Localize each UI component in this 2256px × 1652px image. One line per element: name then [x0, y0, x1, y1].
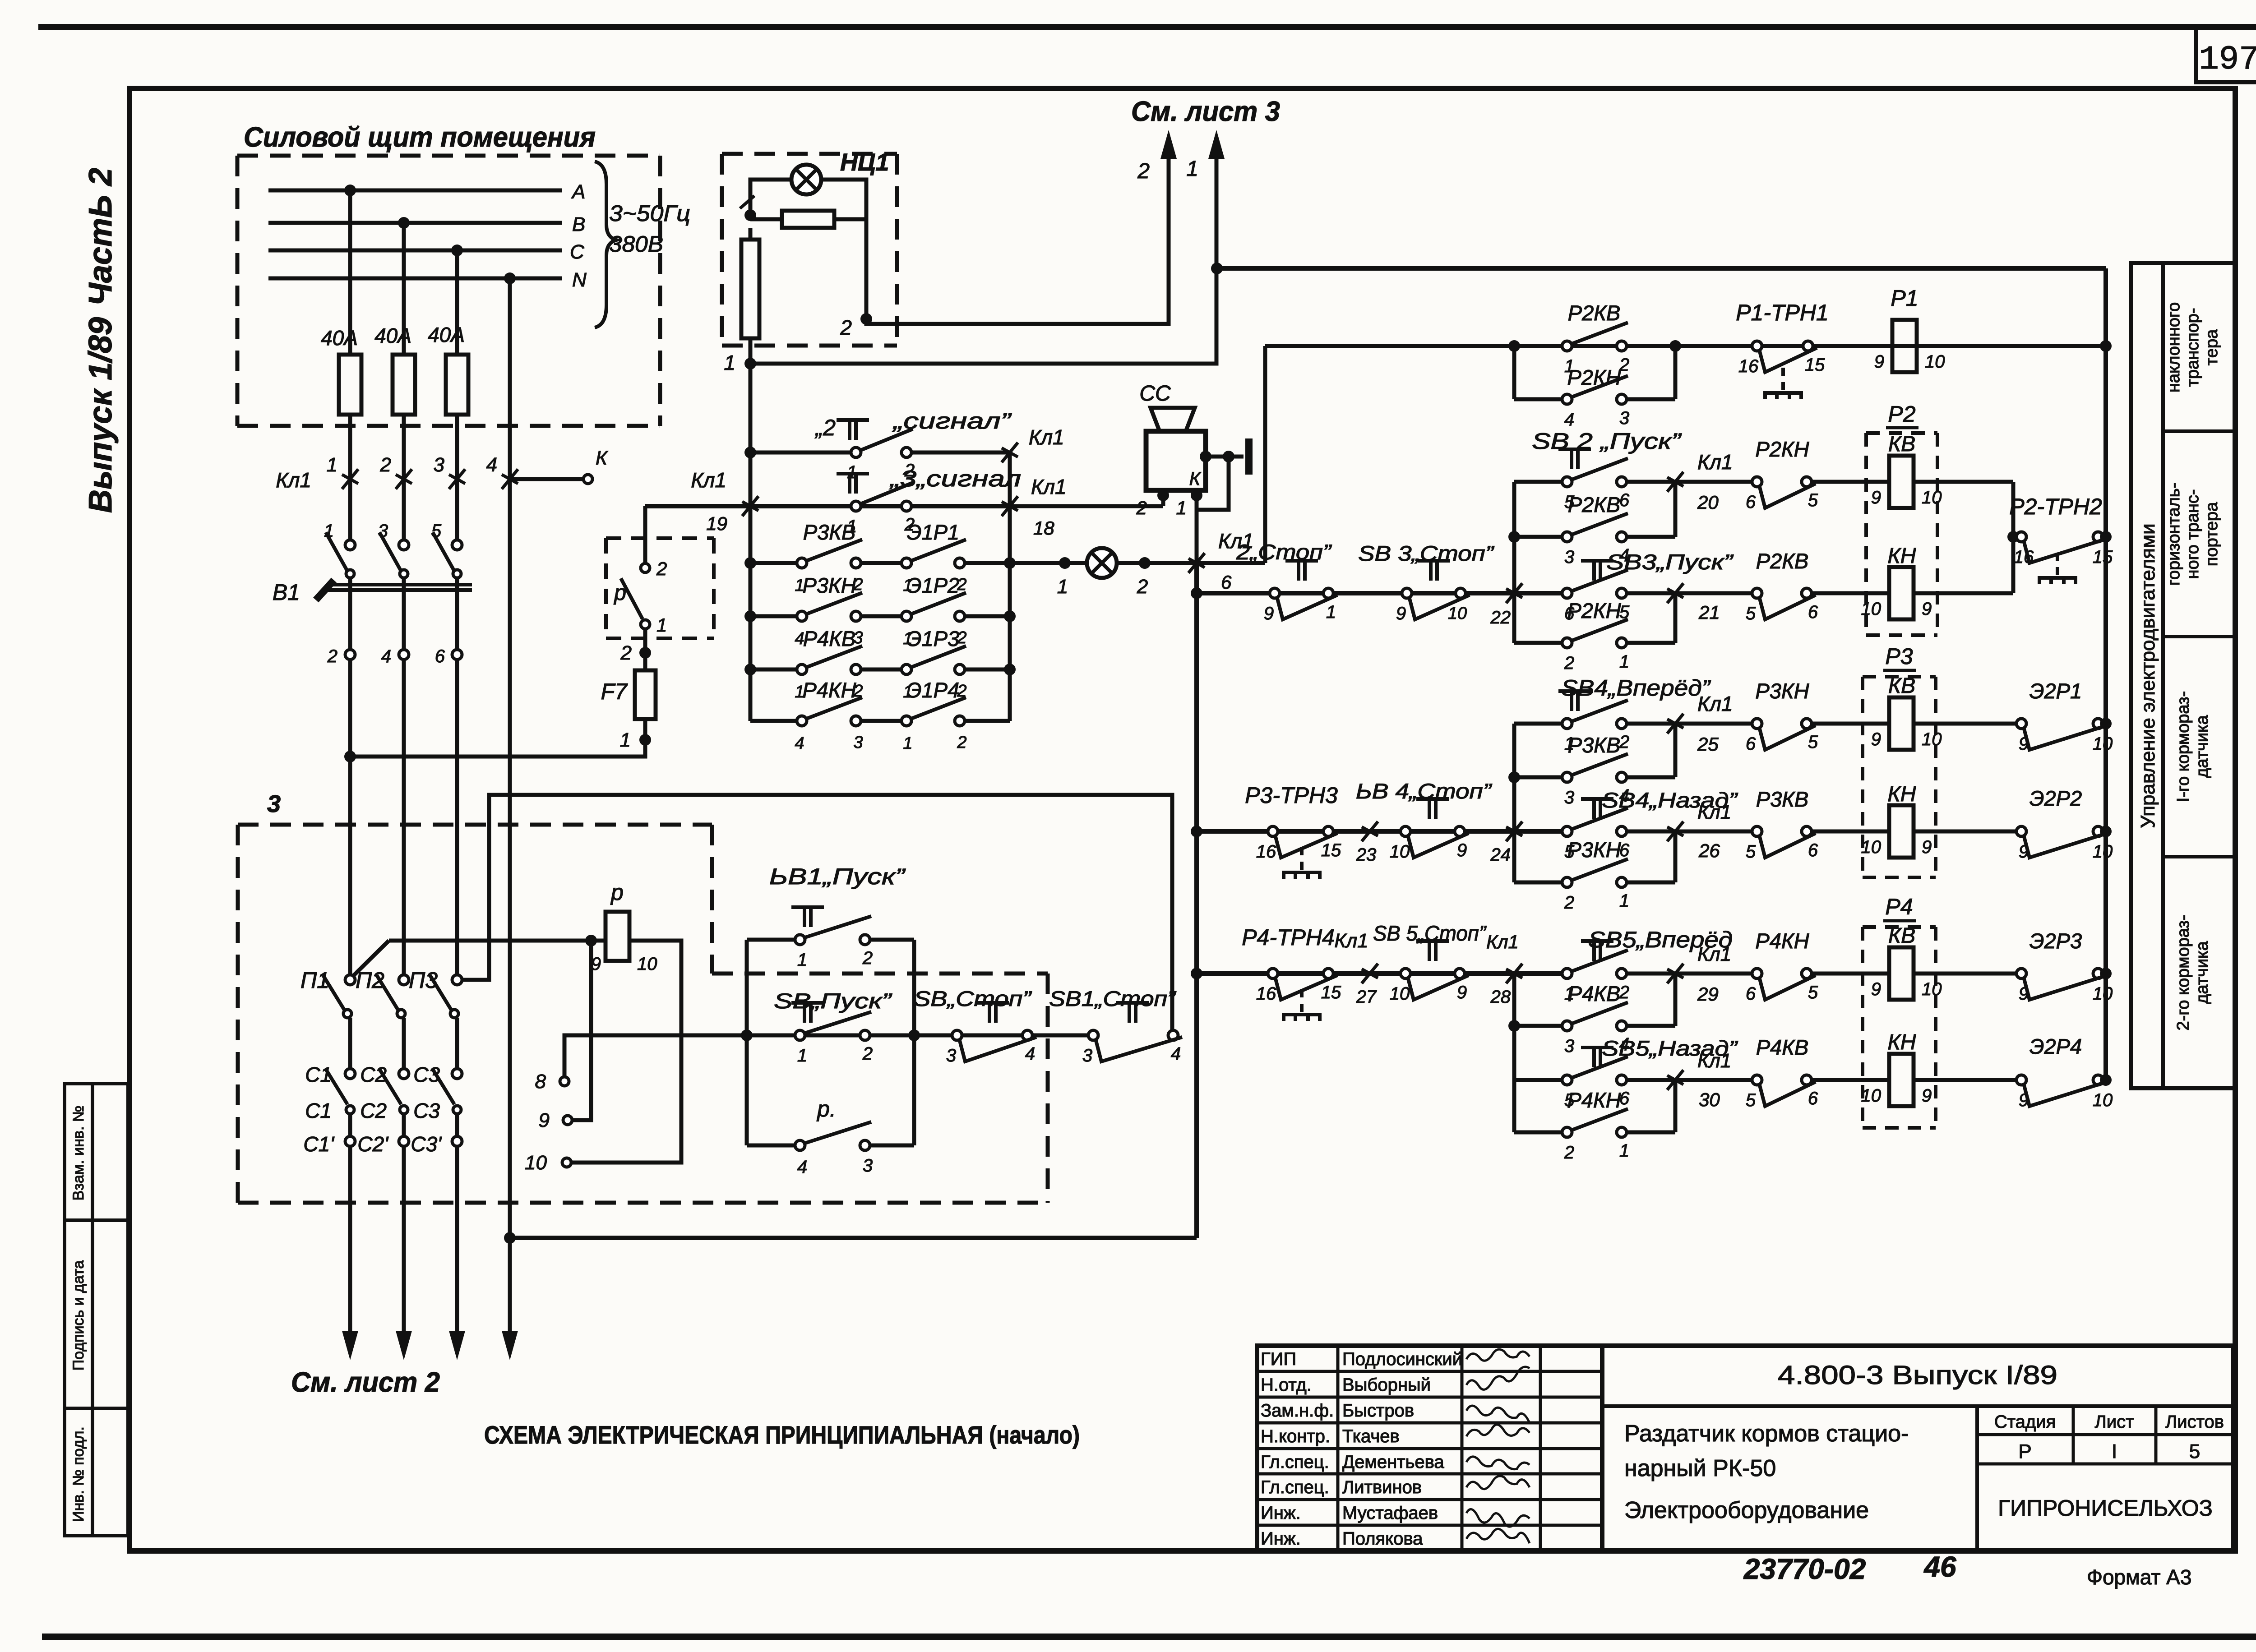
svg-text:С1: С1	[305, 1099, 332, 1122]
terminal Кл1-19	[691, 468, 758, 534]
svg-text:2: 2	[957, 733, 966, 752]
svg-text:9: 9	[1871, 979, 1881, 999]
svg-text:5: 5	[1808, 983, 1818, 1002]
svg-text:2: 2	[1564, 893, 1574, 913]
svg-text:С1': С1'	[303, 1132, 335, 1156]
svg-text:Полякова: Полякова	[1342, 1529, 1423, 1549]
svg-text:См. лист 2: См. лист 2	[291, 1367, 440, 1398]
title block signatures	[1466, 1349, 1530, 1543]
terminal Кл1-6	[1188, 529, 1254, 593]
svg-text:Р4-ТРН4: Р4-ТРН4	[1242, 925, 1335, 950]
svg-text:„сигнал”: „сигнал”	[892, 408, 1012, 434]
thermal contact Р4-ТРН4	[1242, 925, 1341, 1021]
button SB5 Назад	[1514, 1036, 1738, 1110]
bottom bus wire	[510, 1236, 1197, 1240]
wire phase B drop	[402, 223, 406, 355]
node lamp-resistor	[744, 209, 756, 221]
wire CC1 branch	[1197, 457, 1229, 510]
svg-text:2: 2	[1619, 983, 1629, 1002]
svg-text:ЅВ3„Пуск”: ЅВ3„Пуск”	[1606, 550, 1734, 574]
svg-text:Электрооборудование: Электрооборудование	[1624, 1497, 1869, 1523]
svg-text:Р3: Р3	[1885, 644, 1913, 669]
bus vertical x2238	[1008, 452, 1012, 721]
svg-text:6: 6	[1746, 734, 1756, 754]
svg-text:10: 10	[2093, 842, 2113, 862]
svg-text:Р4КН: Р4КН	[802, 678, 856, 702]
terminal Кл1-23	[1356, 821, 1378, 865]
svg-text:Гл.спец.: Гл.спец.	[1261, 1452, 1329, 1472]
svg-text:A: A	[571, 181, 585, 203]
contact Р2КН hold	[1514, 599, 1675, 673]
terminal Кл1-30	[1626, 1050, 1757, 1110]
svg-text:Р1: Р1	[1891, 286, 1918, 311]
svg-text:6: 6	[1808, 1089, 1818, 1108]
wire row 3сигнал to CC	[1010, 498, 1163, 506]
svg-text:Стадия: Стадия	[1994, 1412, 2056, 1432]
svg-text:30: 30	[1699, 1089, 1720, 1110]
svg-text:2: 2	[1137, 159, 1150, 183]
svg-text:9: 9	[1871, 729, 1881, 749]
relay Р3 dashed box	[1863, 644, 1936, 877]
dashed box 3 outline	[238, 790, 1048, 1203]
svg-text:Р3КВ: Р3КВ	[1756, 787, 1809, 811]
svg-text:197: 197	[2199, 41, 2256, 79]
svg-text:ЬВ 4„Стоп”: ЬВ 4„Стоп”	[1356, 779, 1493, 803]
svg-text:С2': С2'	[357, 1132, 389, 1156]
button SB4 Назад	[1562, 788, 1738, 862]
svg-text:23: 23	[1356, 845, 1377, 865]
title block stage grid	[1977, 1406, 2233, 1551]
node F7 tap on phase A	[344, 751, 356, 762]
svg-text:3: 3	[378, 521, 388, 541]
wire N drop	[508, 278, 512, 1238]
svg-text:16: 16	[1738, 356, 1759, 376]
coil Р4-КН	[1861, 1030, 1932, 1106]
wire 9 drop	[572, 941, 591, 1120]
main row P2	[1197, 591, 1567, 595]
svg-text:10: 10	[1922, 979, 1942, 999]
svg-text:ЅВ 5„Стоп”: ЅВ 5„Стоп”	[1373, 921, 1487, 945]
bus labels ABCN	[570, 181, 587, 291]
svg-text:5: 5	[1746, 842, 1756, 862]
contact Р4КН hold	[1514, 1088, 1675, 1163]
wire 8 to rail	[564, 1035, 747, 1077]
thermal contact Р2-ТРН2	[2009, 494, 2113, 584]
svg-text:2: 2	[656, 558, 667, 579]
svg-text:Э2Р2: Э2Р2	[2029, 786, 2082, 810]
svg-text:3: 3	[946, 1046, 956, 1066]
fuse F7	[601, 670, 656, 719]
svg-text:F7: F7	[601, 679, 629, 704]
node C tap	[451, 245, 463, 256]
wire р to fuse	[643, 629, 647, 670]
wire CC1 down	[1195, 495, 1199, 563]
bus C	[268, 249, 562, 253]
svg-text:1: 1	[724, 351, 735, 374]
svg-text:1: 1	[656, 614, 667, 636]
svg-text:Дементьева: Дементьева	[1342, 1452, 1444, 1472]
svg-text:9: 9	[2019, 1090, 2029, 1110]
sidebar label 2-го кормораздатчика	[2174, 914, 2212, 1030]
wire lamp right	[821, 180, 866, 319]
svg-text:1: 1	[324, 521, 334, 541]
svg-text:6: 6	[1746, 984, 1756, 1004]
row P4 main wire	[1197, 971, 1567, 976]
node SB rail left	[741, 1029, 753, 1041]
terminal Кл1-2	[380, 454, 412, 489]
svg-text:Р4КН: Р4КН	[1755, 929, 1809, 953]
terminal Кл1-1	[276, 454, 358, 492]
svg-text:3: 3	[863, 1156, 873, 1176]
outer bottom border	[42, 1634, 2256, 1640]
svg-text:20: 20	[1697, 492, 1719, 513]
label См. лист 2	[291, 1367, 440, 1398]
svg-text:24: 24	[1490, 845, 1511, 865]
terminal 9	[539, 1109, 572, 1131]
coil Р4-КВ	[1871, 924, 1942, 1000]
svg-text:ЅВ1„Стоп”: ЅВ1„Стоп”	[1049, 987, 1177, 1011]
svg-text:Р3КВ: Р3КВ	[1568, 733, 1621, 757]
svg-text:1: 1	[797, 950, 807, 970]
svg-text:Р2КН: Р2КН	[1567, 599, 1621, 623]
svg-text:1: 1	[620, 729, 631, 751]
button 2 сигнал	[815, 408, 1012, 482]
svg-text:4: 4	[1025, 1044, 1035, 1064]
svg-text:5: 5	[1746, 1090, 1756, 1110]
arrow С2 to sheet2	[396, 1146, 412, 1360]
svg-text:ЅВ 3„Стоп”: ЅВ 3„Стоп”	[1358, 541, 1495, 565]
svg-text:2: 2	[1619, 732, 1629, 752]
signal lamp	[1087, 548, 1117, 578]
svg-text:9: 9	[1922, 837, 1932, 857]
contact row Р3КН/Э1Р2	[750, 573, 1010, 648]
svg-text:6: 6	[435, 646, 445, 666]
svg-text:Р4КВ: Р4КВ	[1568, 982, 1621, 1006]
terminal С3'	[411, 1132, 462, 1156]
svg-text:р: р	[610, 880, 624, 905]
contact Р2КН under rail B	[1514, 365, 1675, 429]
svg-text:10: 10	[1448, 604, 1467, 623]
resistor ballast	[782, 211, 834, 228]
svg-text:ЅВ„Пуск”: ЅВ„Пуск”	[774, 989, 892, 1013]
block P3 right vertical upper	[1674, 724, 1678, 777]
arrow С3 to sheet2	[449, 1146, 465, 1360]
svg-text:40А: 40А	[428, 323, 465, 346]
svg-text:10: 10	[2093, 734, 2113, 754]
power panel title	[244, 122, 596, 153]
stamp label Подпись и дата	[70, 1260, 87, 1371]
wire SB rail	[747, 1034, 1093, 1038]
resistor vertical	[741, 240, 759, 338]
wire lamp bus corner	[643, 506, 647, 564]
wire 3 сигнал row	[645, 504, 1010, 508]
svg-text:27: 27	[1356, 987, 1377, 1007]
button SB1 Пуск	[747, 864, 914, 970]
page top border line	[38, 24, 2256, 30]
svg-text:9: 9	[2019, 734, 2029, 754]
svg-text:9: 9	[1396, 604, 1406, 623]
bus Кл1-6 down	[1191, 563, 1202, 1238]
node N tap	[504, 272, 516, 284]
sidebar label наклонного транспортера	[2164, 302, 2221, 392]
svg-text:Управление электродвигателями: Управление электродвигателями	[2137, 523, 2159, 828]
switch B1 pole 3	[431, 521, 462, 650]
svg-text:„3„сигнал: „3„сигнал	[889, 466, 1021, 491]
wire C to П3	[455, 659, 459, 975]
switch B1 pole 1	[324, 521, 355, 650]
svg-text:наклонного: наклонного	[2164, 302, 2183, 392]
svg-text:С2: С2	[360, 1063, 387, 1086]
wire lamp box left drop	[749, 228, 753, 452]
sidebar table frame	[2131, 263, 2235, 1088]
svg-text:Р2КВ: Р2КВ	[1568, 301, 1621, 325]
svg-text:Инж.: Инж.	[1261, 1529, 1301, 1549]
svg-text:ЅВ„Стоп”: ЅВ„Стоп”	[914, 987, 1032, 1011]
svg-text:9: 9	[1457, 840, 1467, 860]
svg-text:Э1Р4: Э1Р4	[907, 678, 959, 702]
svg-text:КН: КН	[1888, 1030, 1916, 1054]
svg-text:СС: СС	[1139, 382, 1171, 406]
node railB branch left	[1508, 340, 1520, 352]
svg-text:НЦ1: НЦ1	[840, 149, 889, 176]
svg-text:2-го кормораз-: 2-го кормораз-	[2174, 914, 2193, 1030]
rail B	[1265, 344, 2106, 348]
svg-text:6: 6	[1746, 492, 1756, 512]
contact Р4КВ interlock2	[1746, 1035, 1889, 1110]
svg-text:Зам.н.ф.: Зам.н.ф.	[1261, 1401, 1334, 1421]
svg-text:22: 22	[1490, 608, 1511, 628]
svg-text:9: 9	[1264, 604, 1274, 623]
wire П3 riser	[462, 795, 1172, 1033]
contact Р4КВ hold	[1514, 982, 1675, 1056]
title block divider	[1602, 1404, 2233, 1408]
svg-text:Гл.спец.: Гл.спец.	[1261, 1477, 1329, 1497]
svg-text:3: 3	[1564, 547, 1574, 567]
svg-text:ЧастЬ 2: ЧастЬ 2	[83, 168, 119, 306]
svg-text:ЅВ 2 „Пуск”: ЅВ 2 „Пуск”	[1532, 429, 1682, 454]
wire riser to rail B	[1263, 346, 1267, 563]
bus B	[268, 221, 562, 225]
svg-text:Кл1: Кл1	[276, 468, 311, 492]
terminal С1'	[303, 1132, 355, 1156]
node CC term 1	[1176, 489, 1202, 518]
terminal Кл1-21	[1626, 583, 1757, 623]
svg-text:19: 19	[706, 513, 727, 534]
svg-text:Листов: Листов	[2165, 1412, 2224, 1432]
svg-text:3: 3	[1082, 1046, 1092, 1066]
node 2 above F7	[620, 642, 651, 664]
svg-text:10: 10	[2093, 1090, 2113, 1110]
margin caption Часть 2	[83, 168, 119, 306]
svg-text:1: 1	[1326, 602, 1336, 622]
svg-text:Р2КВ: Р2КВ	[1568, 493, 1621, 517]
contact С1	[305, 1063, 355, 1137]
wire П1 to coil rail	[353, 941, 389, 976]
wire to K	[510, 477, 583, 481]
sidebar label Управление электродвигателями	[2137, 523, 2159, 828]
svg-text:9: 9	[1457, 983, 1467, 1002]
svg-text:ЬВ1„Пуск”: ЬВ1„Пуск”	[769, 864, 906, 889]
coil Р2-КН	[1861, 544, 1932, 619]
svg-text:N: N	[572, 269, 587, 291]
svg-text:Подлосинский: Подлосинский	[1342, 1349, 1462, 1369]
wire F7 to phase A	[350, 719, 645, 757]
wire row1	[755, 451, 1010, 455]
node P2 row left	[1191, 587, 1202, 599]
sidebar label 1-го кормораздатчика	[2174, 691, 2212, 802]
svg-text:10: 10	[637, 954, 657, 974]
svg-text:Мустафаев: Мустафаев	[1342, 1503, 1438, 1523]
block P4 left vertical	[1508, 974, 1520, 1132]
wire B below fuse	[402, 415, 406, 540]
svg-text:К: К	[596, 447, 608, 469]
switch B1 bottom circles	[327, 646, 462, 666]
svg-text:С3': С3'	[411, 1132, 442, 1156]
svg-text:380В: 380В	[609, 231, 663, 257]
button SB4 Стоп	[1356, 779, 1493, 862]
coil р	[591, 880, 657, 974]
button SB5 Вперёд	[1562, 927, 1733, 1004]
button SB Стоп	[914, 987, 1036, 1066]
contact row Р4КВ/Э1Р3	[750, 627, 1010, 701]
contact Р3КН interlock	[1746, 679, 1889, 754]
branch verticals rail B	[1514, 346, 1675, 399]
terminal 8	[535, 1071, 569, 1093]
svg-text:Э2Р1: Э2Р1	[2029, 679, 2082, 703]
relay Р4 dashed box	[1863, 894, 1936, 1128]
contact Р3КВ interlock2	[1746, 787, 1889, 862]
svg-text:Р3КН: Р3КН	[1567, 838, 1621, 862]
contact Э2Р4	[1914, 1034, 2113, 1110]
node N on bottom bus	[504, 1232, 516, 1244]
svg-text:Э1Р1: Э1Р1	[907, 520, 959, 544]
svg-text:3: 3	[434, 454, 445, 476]
svg-text:Кл1: Кл1	[1029, 425, 1064, 449]
title block stage header	[1994, 1412, 2224, 1432]
svg-text:датчика: датчика	[2193, 715, 2212, 778]
svg-text:С3: С3	[413, 1063, 440, 1086]
svg-text:СХЕМА ЭЛЕКТРИЧЕСКАЯ ПРИНЦИПИАЛ: СХЕМА ЭЛЕКТРИЧЕСКАЯ ПРИНЦИПИАЛЬНАЯ (нача…	[484, 1421, 1080, 1449]
svg-text:6: 6	[1221, 572, 1232, 593]
svg-text:р.: р.	[816, 1096, 836, 1121]
svg-text:Р3КВ: Р3КВ	[803, 520, 856, 544]
coil Р3-КВ	[1871, 674, 1942, 750]
block P2 left vertical	[1508, 482, 1520, 643]
svg-text:I: I	[2112, 1440, 2117, 1463]
button SB3 Стоп	[1358, 541, 1495, 623]
svg-text:1: 1	[797, 1046, 807, 1066]
arrow N to sheet2	[502, 1238, 518, 1360]
svg-text:46: 46	[1923, 1550, 1956, 1583]
svg-text:40А: 40А	[321, 326, 358, 350]
right bus vertical	[2103, 268, 2108, 1080]
dashed box around р	[606, 538, 714, 638]
button SB5 Стоп	[1373, 921, 1487, 1004]
svg-text:р: р	[613, 581, 626, 605]
svg-text:2: 2	[620, 642, 632, 664]
terminal Кл1 row1	[1002, 425, 1064, 462]
svg-text:8: 8	[535, 1071, 546, 1093]
svg-text:3: 3	[1619, 408, 1629, 428]
svg-text:5: 5	[2189, 1440, 2200, 1463]
svg-text:3: 3	[267, 790, 281, 817]
svg-text:Р4КН: Р4КН	[1567, 1088, 1621, 1112]
svg-text:ГИП: ГИП	[1261, 1349, 1296, 1369]
svg-text:Кл1: Кл1	[1697, 1050, 1731, 1072]
siren CC	[1139, 382, 1206, 490]
svg-text:Р3-ТРН3: Р3-ТРН3	[1245, 783, 1338, 808]
terminal Кл1-22	[1490, 583, 1523, 628]
thermal contact Р1-ТРН1	[1736, 300, 1829, 399]
wire phase A drop	[348, 190, 352, 355]
node bus row1	[744, 447, 756, 458]
svg-text:9: 9	[1922, 1086, 1932, 1106]
svg-text:2„Стоп”: 2„Стоп”	[1236, 540, 1332, 564]
svg-text:Кл1: Кл1	[1697, 801, 1731, 823]
svg-text:Инв. № подл.: Инв. № подл.	[70, 1426, 87, 1522]
svg-text:Р4КВ: Р4КВ	[803, 627, 856, 651]
svg-text:10: 10	[2093, 984, 2113, 1004]
svg-text:16: 16	[1256, 842, 1276, 862]
svg-text:18: 18	[1033, 517, 1054, 539]
svg-text:1: 1	[1619, 891, 1629, 911]
svg-text:Э1Р3: Э1Р3	[907, 627, 959, 651]
svg-text:40А: 40А	[374, 324, 411, 347]
node 1 below F7	[620, 729, 651, 751]
coil Р2-КВ	[1871, 432, 1942, 508]
svg-text:ного транс-: ного транс-	[2183, 489, 2202, 579]
contact Э2Р1	[1914, 679, 2113, 754]
relay Р2 dashed box	[1866, 401, 1937, 635]
svg-text:„2: „2	[815, 415, 836, 440]
switch B1 pole 2	[378, 521, 409, 650]
button SB1 Стоп	[1049, 987, 1182, 1066]
svg-text:2: 2	[862, 948, 873, 968]
svg-text:Кл1: Кл1	[1334, 930, 1368, 952]
lamp dashed box	[722, 154, 897, 346]
arrow С1 to sheet2	[342, 1146, 358, 1360]
svg-text:5: 5	[1808, 732, 1818, 752]
svg-text:датчика: датчика	[2193, 941, 2212, 1004]
svg-text:Р2: Р2	[1888, 401, 1915, 427]
svg-text:1: 1	[1619, 652, 1629, 672]
svg-text:Р2КН: Р2КН	[1755, 437, 1809, 461]
svg-text:тера: тера	[2202, 329, 2221, 365]
sidebar label горизонтального транспортера	[2164, 483, 2221, 586]
block P2 right vertical upper	[1674, 482, 1678, 537]
contact Р2КВ on rail B	[1562, 301, 1629, 376]
node B tap	[398, 217, 410, 229]
svg-text:4: 4	[381, 646, 391, 666]
label См. лист 3	[1131, 96, 1280, 127]
fuse F1 40A	[321, 326, 361, 415]
svg-text:3~50Гц: 3~50Гц	[609, 201, 690, 226]
button 2 Стоп	[1236, 540, 1337, 623]
block P4 right vertical lower	[1674, 1080, 1678, 1132]
button SB4 Вперёд	[1514, 675, 1711, 754]
wire lamp left	[740, 180, 791, 211]
svg-text:С1: С1	[305, 1063, 332, 1086]
wire CC striker	[1206, 438, 1249, 475]
svg-text:5: 5	[1746, 604, 1756, 623]
node CC term 2	[1136, 489, 1169, 518]
bus A	[268, 189, 562, 193]
node lamp terminal 2	[840, 313, 872, 339]
svg-text:6: 6	[1808, 602, 1818, 622]
button SB Пуск	[774, 989, 892, 1066]
svg-text:Р3КН: Р3КН	[1755, 679, 1809, 703]
svg-text:10: 10	[1390, 984, 1410, 1004]
